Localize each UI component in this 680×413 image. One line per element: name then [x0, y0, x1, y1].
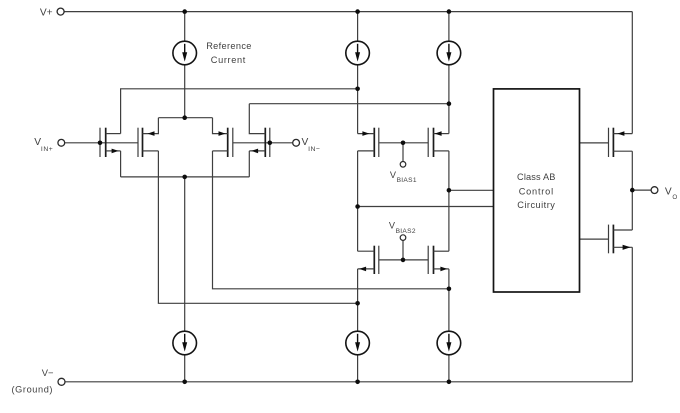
current source I4 (bottom left): [173, 331, 197, 355]
node M8 source / M3 drain: [447, 287, 452, 292]
wire bottom tail node horizontal: [121, 176, 250, 178]
block U1 Class AB Control Circuitry: [494, 89, 580, 292]
wire M7 drain node to Class AB box: [358, 206, 494, 208]
transistor M5 (upper cascode left): [358, 128, 379, 157]
current source I1 (reference current, top left): [173, 41, 197, 65]
wire M5-M6 gate bus with VBIAS1 tap: [379, 142, 428, 144]
wire VIN- input to M3/M4 gates: [233, 142, 293, 144]
node bottom tail (I4 / M1 M4 sources): [182, 175, 187, 180]
wire M6 source node to Class AB box: [449, 189, 494, 191]
wire M2 drain down and right to node B: [158, 151, 357, 303]
wire Class AB box to M10 gate: [580, 238, 609, 240]
wire top tail node horizontal: [158, 117, 212, 119]
wire M8 source down to node C: [448, 269, 450, 289]
wire right column mid (M9 source to M10 drain via output node): [631, 151, 633, 230]
wire node C down to current source I6: [448, 289, 450, 332]
terminal V- (ground): [12, 367, 66, 395]
wire M5 source down to node (357.6,206.5): [357, 151, 359, 207]
node top rail / I2: [355, 9, 360, 14]
current source I6 (bottom right): [437, 331, 461, 355]
wire VIN+ input to M1/M2 gates: [65, 142, 138, 144]
transistor M6 (upper cascode right): [428, 128, 449, 157]
transistor M10 (output NMOS): [609, 225, 633, 254]
wire I2 output down to M5 drain lead: [357, 65, 359, 134]
svg-text:Reference: Reference: [206, 41, 252, 51]
wire I5 to bottom rail: [357, 355, 359, 382]
svg-text:O: O: [672, 194, 677, 201]
node top tail (I1 / M2 M3 sources): [182, 115, 187, 120]
wire VBIAS1 stem: [402, 143, 404, 162]
transistor M2 (input NMOS, VIN+ inner): [138, 118, 158, 157]
node bottom rail / I5: [355, 380, 360, 385]
node VIN- gate junction: [268, 141, 273, 146]
terminal VBIAS1: [390, 162, 417, 185]
label reference current: [206, 41, 252, 65]
node VBIAS2 tap: [401, 258, 406, 263]
wire right column bottom (M10 source to bottom rail): [631, 247, 633, 381]
node M4 drain / I3 column: [447, 101, 452, 106]
transistor M3 (input NMOS, VIN- inner): [213, 118, 233, 157]
svg-text:BIAS2: BIAS2: [396, 228, 416, 235]
wire M7 drain up to node (357.6,206.5): [357, 207, 359, 252]
svg-text:IN−: IN−: [308, 146, 320, 153]
svg-text:Control: Control: [519, 186, 554, 196]
node VBIAS1 tap: [401, 141, 406, 146]
transistor M4 (input PMOS, VIN- outer): [249, 104, 269, 177]
node bottom rail / I4: [182, 380, 187, 385]
transistor M7 (lower cascode left): [358, 246, 379, 274]
terminal VO: [651, 187, 677, 201]
transistor M9 (output PMOS): [609, 128, 633, 157]
node M5 source / M7 drain to box: [355, 204, 360, 209]
svg-text:V: V: [665, 187, 672, 198]
wire M6 source down through node to M8 drain: [448, 151, 450, 251]
svg-text:BIAS1: BIAS1: [397, 177, 417, 184]
wire stem top rail to current source I2: [357, 12, 359, 42]
node VIN+ gate junction: [98, 141, 103, 146]
wire M7-M8 gate bus with VBIAS2 tap: [379, 259, 428, 261]
node top rail / I1: [182, 9, 187, 14]
wire right column top (rail to M9 drain): [631, 12, 633, 134]
svg-text:V−: V−: [42, 367, 54, 378]
current source I5 (bottom middle): [346, 331, 370, 355]
terminal VIN-: [293, 137, 321, 153]
node output: [630, 188, 635, 193]
wire top rail V+: [64, 11, 632, 13]
transistor M8 (lower cascode right): [428, 246, 449, 274]
wire stem top rail to current source I3: [448, 12, 450, 42]
transistor M1 (input PMOS, VIN+ outer): [100, 128, 121, 177]
wire V+ terminal to rail: [63, 11, 66, 13]
svg-text:Current: Current: [211, 55, 246, 65]
wire Class AB box to M9 gate: [580, 142, 609, 144]
wire node B down to current source I5: [357, 303, 359, 331]
svg-text:IN+: IN+: [41, 146, 53, 153]
terminal V+: [40, 8, 64, 19]
wire I3 output down to M6 drain lead: [448, 65, 450, 134]
svg-text:Class AB: Class AB: [517, 172, 555, 182]
terminal VBIAS2: [389, 221, 416, 241]
node bottom rail / I6: [447, 380, 452, 385]
wire M3 drain down and right to node C: [213, 151, 449, 289]
wire I4 to bottom rail: [184, 355, 186, 382]
svg-text:Circuitry: Circuitry: [517, 200, 555, 210]
current source I2 (top middle): [346, 41, 370, 65]
node top rail / I3: [447, 9, 452, 14]
wire stem top rail to current source I1: [184, 12, 186, 42]
current source I3 (top right): [437, 41, 461, 65]
node M1 drain / I2 column: [355, 87, 360, 92]
wire bottom rail V-: [65, 381, 632, 383]
node M6 source to box: [447, 188, 452, 193]
wire I1 output to input-pair top tail node: [184, 65, 186, 118]
svg-text:(Ground): (Ground): [12, 385, 54, 395]
wire output node to VO terminal: [632, 189, 651, 191]
node M7 source / M2 drain: [355, 301, 360, 306]
wire VBIAS2 stem: [402, 240, 404, 260]
terminal VIN+: [34, 137, 64, 153]
wire I6 to bottom rail: [448, 355, 450, 382]
wire M4 drain to I3 node at y=103.7: [249, 103, 449, 105]
svg-text:V+: V+: [40, 8, 53, 19]
wire M1 drain to I2 node at y=88.8: [121, 89, 358, 134]
wire M7 source down to node B: [357, 269, 359, 303]
wire bottom tail node to current source I4: [184, 177, 186, 332]
